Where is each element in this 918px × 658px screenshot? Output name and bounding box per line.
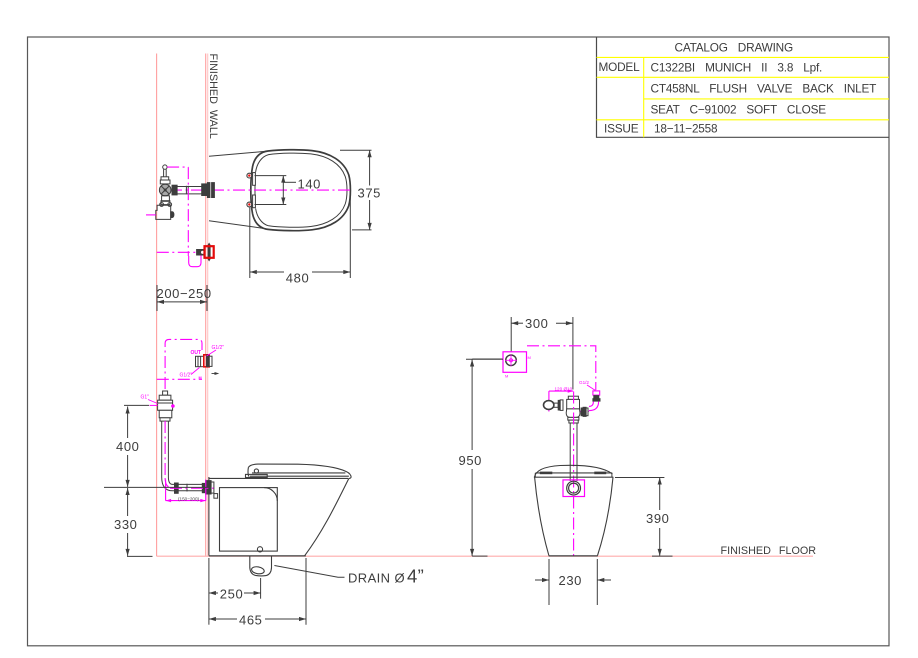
svg-text:(150−200): (150−200) — [178, 496, 200, 501]
svg-text:CT458NL FLUSH VALVE BACK INLET: CT458NL FLUSH VALVE BACK INLET — [651, 82, 877, 96]
svg-text:390: 390 — [646, 511, 670, 526]
hinge bolt bottom — [247, 202, 252, 207]
svg-text:300: 300 — [525, 316, 549, 331]
side toilet — [209, 464, 351, 556]
plan centerline magenta — [170, 189, 350, 191]
svg-text:140: 140 — [298, 176, 322, 191]
magenta rough-in bracket — [166, 480, 206, 501]
dim 250 — [209, 558, 261, 625]
svg-text:330: 330 — [114, 517, 138, 532]
hinge bolt top — [247, 173, 252, 178]
dim 200-250 — [157, 285, 207, 311]
dim 465 — [209, 558, 306, 625]
pipe centerline magenta — [165, 421, 213, 488]
svg-text:G1/2": G1/2" — [212, 345, 225, 351]
dim 140 — [255, 176, 297, 205]
svg-text:250: 250 — [220, 587, 244, 602]
svg-text:M: M — [528, 355, 531, 360]
drain leader — [274, 566, 344, 578]
hinge bracket bottom — [253, 195, 256, 208]
svg-text:950: 950 — [459, 453, 483, 468]
dim 375 — [340, 150, 372, 230]
svg-text:CATALOG DRAWING: CATALOG DRAWING — [675, 41, 794, 55]
tank plan lines — [209, 151, 266, 156]
angle valve front — [589, 391, 601, 411]
finished floor line — [157, 555, 813, 557]
svg-text:C1322BI MUNICH II 3.8 Lpf.: C1322BI MUNICH II 3.8 Lpf. — [651, 61, 823, 75]
dim 230 — [535, 559, 611, 605]
dim 330 — [127, 488, 153, 556]
dim 390 — [615, 478, 664, 556]
valve magenta dot — [171, 404, 175, 408]
seat front edge — [254, 172, 256, 208]
side concealed fitting — [196, 354, 213, 367]
svg-text:200−250: 200−250 — [157, 286, 212, 301]
svg-text:230: 230 — [559, 573, 583, 588]
wall line pair — [205, 54, 207, 556]
svg-text:G1/2": G1/2" — [180, 373, 193, 379]
toilet base on floor (side) — [209, 555, 306, 557]
svg-text:SEAT C−91002 SOFT CLOSE: SEAT C−91002 SOFT CLOSE — [651, 103, 827, 117]
svg-text:375: 375 — [358, 185, 382, 200]
side flush valve — [158, 391, 218, 498]
lid bumpers — [540, 472, 553, 475]
hinge bracket top — [253, 173, 256, 186]
dim 480 — [250, 193, 350, 278]
svg-text:G1": G1" — [141, 395, 150, 401]
seat lid outer — [251, 150, 351, 231]
seat lid inner — [256, 153, 347, 227]
svg-text:M: M — [505, 374, 508, 379]
plan fitting anchor bar — [208, 243, 211, 262]
svg-text:G1/2: G1/2 — [579, 380, 589, 385]
svg-text:M: M — [199, 376, 202, 380]
spud front — [563, 480, 585, 497]
front toilet — [534, 465, 613, 555]
plan flush valve — [156, 165, 215, 219]
front centerline magenta — [573, 392, 575, 557]
dim 950 — [466, 359, 503, 556]
svg-text:MODEL: MODEL — [599, 60, 641, 74]
front flush valve — [544, 396, 589, 481]
wall line left (finished wall centerline) — [156, 54, 158, 557]
stop valve plan box — [472, 352, 531, 379]
toilet base on floor (front) — [549, 555, 598, 557]
concealed supply dashdot loop — [165, 339, 202, 389]
svg-text:400: 400 — [116, 439, 140, 454]
supply dashdot — [157, 378, 202, 380]
title block yellow grid — [597, 57, 890, 137]
svg-text:FINISHED WALL: FINISHED WALL — [207, 54, 219, 139]
plan supply fitting — [196, 249, 204, 256]
plan valve magenta centerlines — [146, 167, 201, 267]
svg-text:465: 465 — [239, 613, 263, 628]
svg-text:480: 480 — [286, 271, 310, 286]
title block outer — [597, 37, 890, 137]
dim 400 — [104, 405, 209, 487]
svg-text:FINISHED FLOOR: FINISHED FLOOR — [721, 545, 817, 557]
svg-text:18−11−2558: 18−11−2558 — [654, 122, 718, 136]
magenta bracket front valve — [549, 391, 589, 411]
supply dashdot front — [527, 346, 596, 390]
dim 300 — [511, 317, 573, 390]
plan fitting red box — [205, 246, 214, 258]
drain pipe — [250, 556, 272, 576]
svg-text:ISSUE: ISSUE — [604, 122, 639, 136]
svg-text:OUT: OUT — [191, 350, 202, 356]
small arrow at wall — [215, 372, 220, 375]
